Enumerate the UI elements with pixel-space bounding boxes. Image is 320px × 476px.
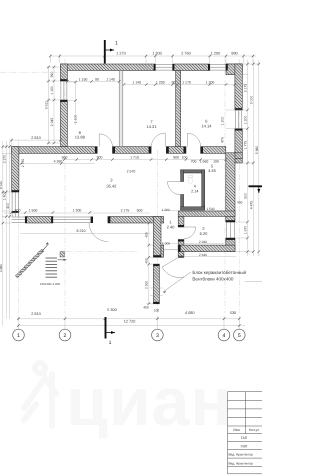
- svg-text:12 720: 12 720: [124, 319, 136, 323]
- bottom chain 2 overall: [17, 325, 245, 327]
- wall under bathroom block W11: [178, 211, 235, 216]
- rooms 7-6 inner chain: [124, 84, 246, 86]
- room 4 label: [191, 185, 198, 194]
- bottom chain texts: [31, 308, 236, 323]
- window left wall W4: [12, 192, 18, 217]
- small block top of stair: [60, 252, 65, 258]
- window right lower W8: [226, 222, 234, 238]
- svg-text:2 175: 2 175: [244, 84, 248, 93]
- axis3 wall W10 step: [161, 245, 164, 257]
- axis 5 line: [238, 59, 240, 313]
- room2 lower outside chain: [178, 256, 236, 258]
- svg-text:2 810: 2 810: [31, 136, 41, 140]
- svg-text:1 300: 1 300: [244, 116, 248, 125]
- svg-text:3: 3: [110, 177, 113, 182]
- W6 window caps: [235, 108, 242, 110]
- bathroom block left wall upper: [181, 170, 184, 182]
- svg-text:150х300=1 800: 150х300=1 800: [40, 282, 60, 286]
- svg-text:1: 1: [115, 41, 118, 47]
- svg-text:ГИП: ГИП: [241, 444, 248, 448]
- svg-text:1 400: 1 400: [2, 192, 6, 201]
- svg-text:2 640: 2 640: [199, 253, 207, 257]
- svg-text:4 475: 4 475: [249, 201, 253, 210]
- right chain extensions: [226, 64, 261, 252]
- right step wall W7: [226, 153, 243, 159]
- ticks left chains: [2, 145, 11, 224]
- ticks W10 side: [148, 222, 151, 305]
- svg-text:2 270: 2 270: [2, 155, 6, 164]
- svg-text:700: 700: [191, 159, 197, 163]
- door A leaf + arc: [99, 134, 112, 147]
- terrace dash line: [66, 251, 139, 253]
- svg-text:400: 400: [143, 306, 149, 310]
- window bottom room3 main: [53, 217, 91, 222]
- room8 inner chain: [67, 81, 119, 83]
- window left upper W2: [61, 81, 67, 100]
- svg-text:3 510: 3 510: [44, 101, 48, 110]
- svg-text:2 300: 2 300: [145, 281, 149, 289]
- svg-text:500: 500: [137, 209, 143, 213]
- vertical dim texts left of W2: [44, 72, 54, 127]
- svg-text:1 500: 1 500: [29, 209, 38, 213]
- stair steps hatched blocks: [15, 249, 64, 278]
- vertical dim texts W10 side: [143, 200, 242, 312]
- svg-text:35.42: 35.42: [106, 184, 117, 189]
- vertical dim texts right: [220, 84, 259, 235]
- svg-text:6: 6: [205, 118, 208, 123]
- svg-text:500: 500: [244, 193, 248, 199]
- axis 4 line: [224, 59, 226, 313]
- svg-text:1 260: 1 260: [161, 208, 169, 212]
- right lower wall W8 upper: [226, 153, 235, 222]
- svg-text:400: 400: [6, 203, 10, 209]
- door C jambs: [184, 147, 187, 154]
- bottom wall rooms 1-2 W9: [178, 245, 235, 252]
- ticks bottom chains: [17, 318, 240, 321]
- rooms 1-2 top chain: [162, 210, 224, 212]
- svg-text:1 150: 1 150: [50, 86, 54, 95]
- ticks left mid chain: [10, 139, 61, 142]
- svg-text:4 360: 4 360: [54, 159, 63, 163]
- rooms 1-2 chains texts: [161, 207, 214, 257]
- svg-text:5 980: 5 980: [255, 146, 259, 155]
- svg-text:1 270: 1 270: [116, 52, 126, 56]
- left vertical chains: [2, 141, 4, 326]
- door E leaf + arc: [162, 257, 184, 277]
- W10 gap caps: [153, 255, 161, 257]
- svg-text:1 710: 1 710: [130, 155, 139, 159]
- svg-text:100: 100: [154, 309, 160, 313]
- svg-text:14.31: 14.31: [146, 124, 157, 129]
- svg-text:400: 400: [237, 200, 243, 204]
- title block frame: [227, 392, 229, 474]
- stair tread lines: [46, 258, 58, 277]
- dimension lines etc. inserted below: [2, 55, 261, 330]
- svg-text:4: 4: [194, 185, 196, 189]
- bottom wall of room3 pier 2: [108, 217, 164, 224]
- W2 window caps: [60, 79, 67, 81]
- partition P2 rooms 7|6: [176, 71, 181, 147]
- svg-text:2.40: 2.40: [167, 225, 176, 230]
- svg-text:1 560: 1 560: [200, 159, 209, 163]
- svg-text:Блок керамзитобетонный: Блок керамзитобетонный: [192, 270, 246, 275]
- top wall window caps: [154, 64, 156, 71]
- ticks bottom window chain: [10, 211, 91, 214]
- section marker right edge: [249, 186, 263, 193]
- room 8 label: [75, 130, 86, 140]
- svg-text:Кол.уч: Кол.уч: [249, 428, 259, 432]
- svg-text:475: 475: [220, 137, 224, 143]
- svg-text:1 200: 1 200: [206, 80, 215, 84]
- top wall segment B: [173, 64, 210, 71]
- svg-text:900: 900: [173, 155, 179, 159]
- svg-text:2 345: 2 345: [50, 118, 54, 127]
- svg-text:4 530: 4 530: [0, 181, 3, 190]
- door D jambs: [91, 217, 93, 224]
- svg-text:Вед. Архитектор: Вед. Архитектор: [229, 453, 254, 457]
- svg-text:6.20: 6.20: [200, 231, 209, 236]
- ticks top chain: [2, 55, 261, 327]
- right vertical chains: [247, 60, 249, 256]
- svg-text:400: 400: [145, 258, 149, 264]
- mid wall seg 4: [201, 147, 226, 154]
- left chain extensions: [2, 147, 11, 223]
- bottom wall pier caps: [25, 217, 27, 224]
- window top wall 2: [210, 64, 226, 70]
- axis circle 1: [13, 329, 245, 341]
- svg-text:2 735: 2 735: [21, 159, 25, 168]
- axis3 wall W10 lower / vent block: [153, 264, 159, 304]
- svg-text:1 775: 1 775: [244, 141, 248, 150]
- W4 window caps: [12, 190, 19, 192]
- svg-text:2 810: 2 810: [31, 312, 41, 316]
- rooms 1-2 bottom chain: [162, 243, 224, 245]
- horizontal axis stub left: [0, 71, 60, 73]
- bathroom block bottom wall: [181, 207, 205, 210]
- svg-text:890: 890: [231, 52, 237, 56]
- room 7 label: [146, 119, 157, 129]
- door C leaf + arc: [187, 133, 200, 146]
- top wall segment A: [60, 64, 155, 71]
- svg-text:1 140: 1 140: [132, 80, 141, 84]
- mid wall door chain texts: [62, 155, 219, 163]
- svg-text:2.14: 2.14: [191, 190, 198, 194]
- axis 1 line: [18, 140, 20, 313]
- stair arrow horizontal: [58, 259, 67, 261]
- chain left of W2 wall: [48, 66, 50, 144]
- bathroom block left wall lower: [181, 195, 184, 211]
- svg-text:циан: циан: [66, 364, 233, 440]
- svg-text:4: 4: [223, 333, 226, 339]
- right lower wall W8 lower corner: [226, 238, 235, 252]
- watermark house icon: [24, 363, 56, 426]
- W9 left end cap: [178, 245, 180, 252]
- window top wall 1: [155, 64, 172, 70]
- svg-text:1 570: 1 570: [244, 226, 248, 235]
- svg-text:1 000: 1 000: [162, 242, 170, 246]
- svg-text:2 175: 2 175: [121, 209, 130, 213]
- W10 side dims extensions: [146, 223, 153, 304]
- room3 inner chain: [21, 163, 95, 165]
- svg-text:1 100: 1 100: [73, 115, 77, 124]
- top chain extension lines: [50, 55, 253, 64]
- ticks chain left of W2: [47, 66, 55, 145]
- top chain dimension texts: [116, 52, 237, 56]
- svg-text:100: 100: [182, 155, 188, 159]
- vent block note: [192, 270, 246, 282]
- window bottom room3 corner: [12, 217, 26, 222]
- svg-text:2 940: 2 940: [199, 240, 207, 244]
- room3 bottom window chain: [4, 212, 150, 214]
- bottom wall of room3 pier 1: [25, 217, 53, 224]
- svg-text:1 540: 1 540: [206, 207, 214, 211]
- entrance threshold line: [163, 249, 178, 251]
- svg-text:4.45: 4.45: [208, 168, 217, 173]
- room 2 label: [200, 226, 209, 236]
- svg-text:Изм: Изм: [233, 428, 240, 432]
- svg-text:1 300: 1 300: [73, 209, 82, 213]
- W8 window caps: [226, 220, 235, 222]
- room2 left wall W12 upper: [178, 216, 184, 227]
- svg-text:4 080: 4 080: [185, 311, 195, 315]
- svg-text:3 000: 3 000: [249, 96, 253, 105]
- top chain line: [50, 55, 256, 57]
- bottom chain 1: [17, 318, 240, 320]
- svg-text:1 200: 1 200: [220, 117, 224, 126]
- inner chain texts rooms 8,7,6: [79, 77, 215, 84]
- bathroom block top wall: [181, 170, 205, 173]
- svg-text:1 200: 1 200: [211, 52, 221, 56]
- svg-text:5: 5: [238, 333, 241, 339]
- svg-text:2 570: 2 570: [127, 170, 136, 174]
- svg-text:90: 90: [95, 77, 99, 81]
- right upper wall W6 upper part: [235, 64, 242, 110]
- svg-text:400: 400: [145, 232, 149, 238]
- svg-text:1 170: 1 170: [182, 80, 191, 84]
- section marker 1 top: [105, 40, 118, 64]
- top-right corner thickening: [226, 64, 242, 75]
- svg-text:530: 530: [230, 311, 236, 315]
- door B jambs: [149, 147, 152, 154]
- axis3 wall W10 upper: [153, 217, 161, 258]
- ticks room3 inner: [20, 162, 63, 165]
- ticks rooms inner chains: [66, 80, 120, 83]
- mid wall seg 1: [12, 147, 98, 154]
- bottom window chain texts: [15, 209, 143, 213]
- svg-text:1 200: 1 200: [152, 52, 162, 56]
- svg-text:1 150: 1 150: [79, 77, 88, 81]
- title block texts: [229, 428, 260, 465]
- svg-text:ГАП: ГАП: [241, 436, 248, 440]
- mid wall seg 2: [113, 147, 152, 154]
- section marker 1 bottom: [106, 317, 116, 346]
- svg-text:100: 100: [213, 159, 219, 163]
- room2 left wall W12 lower: [178, 240, 184, 252]
- W12 stub bottom cap: [178, 256, 184, 258]
- svg-text:Вед. Архитектор: Вед. Архитектор: [229, 461, 254, 465]
- svg-text:5 300: 5 300: [107, 308, 117, 312]
- left upper wall W2 upper part: [60, 64, 67, 81]
- bottom chain extensions: [19, 316, 240, 329]
- svg-text:8 210: 8 210: [77, 229, 86, 233]
- svg-text:90: 90: [171, 80, 175, 84]
- svg-text:3: 3: [156, 333, 159, 339]
- axis 3 line: [156, 150, 158, 313]
- svg-text:13.88: 13.88: [75, 135, 86, 140]
- left mid chain line: [10, 139, 67, 141]
- room 5 label: [208, 164, 217, 173]
- room 6 label: [201, 118, 212, 128]
- svg-text:1: 1: [109, 340, 112, 346]
- window right upper W6: [235, 110, 241, 129]
- svg-text:3 880: 3 880: [0, 264, 3, 273]
- svg-text:2: 2: [64, 333, 67, 339]
- mid wall seg 3: [166, 147, 186, 154]
- door G bathroom: [168, 182, 181, 195]
- svg-text:1 140: 1 140: [106, 77, 115, 81]
- svg-text:1 200: 1 200: [156, 80, 165, 84]
- axis 2 line: [64, 59, 66, 313]
- svg-text:560: 560: [62, 155, 68, 159]
- svg-text:900: 900: [97, 155, 103, 159]
- ticks right chains: [246, 63, 260, 253]
- partition P1 rooms 8|7: [119, 71, 123, 147]
- door B leaf + arc: [151, 133, 165, 147]
- svg-text:400: 400: [15, 209, 21, 213]
- vertical dim texts left: [0, 155, 25, 273]
- svg-text:14.14: 14.14: [201, 124, 212, 129]
- room2 left wall stub below W9: [178, 252, 184, 258]
- top wall corner segment C: [226, 64, 242, 71]
- ticks interior window dim W2: [74, 81, 77, 102]
- W10 bottom cap: [153, 302, 159, 304]
- svg-text:990: 990: [50, 72, 54, 78]
- ticks mid door chain: [63, 158, 227, 161]
- vent leader: [163, 272, 191, 292]
- svg-text:2 760: 2 760: [181, 52, 191, 56]
- stair direction arrow diagonal: [41, 244, 49, 253]
- door F room1-room2: [184, 227, 196, 239]
- bathroom block right wall: [202, 170, 205, 210]
- room 1 label: [167, 220, 176, 230]
- room3 bottom inner chain: [20, 232, 150, 234]
- door A jambs: [95, 147, 97, 154]
- vent block dims: [150, 288, 163, 296]
- left upper wall W2 lower part: [60, 100, 67, 147]
- svg-text:Вентблоки 400х400: Вентблоки 400х400: [192, 276, 233, 281]
- left wall W4: [12, 147, 19, 192]
- interior window dim line W2: [75, 82, 77, 125]
- svg-text:1: 1: [17, 333, 20, 339]
- W12 door caps: [178, 225, 184, 227]
- mid wall door chain: [62, 159, 226, 161]
- room 3 label: [106, 177, 117, 188]
- right upper wall W6 lower part: [235, 129, 242, 163]
- door D leaf + arc: [89, 223, 108, 242]
- toilet in room 4: [188, 175, 193, 177]
